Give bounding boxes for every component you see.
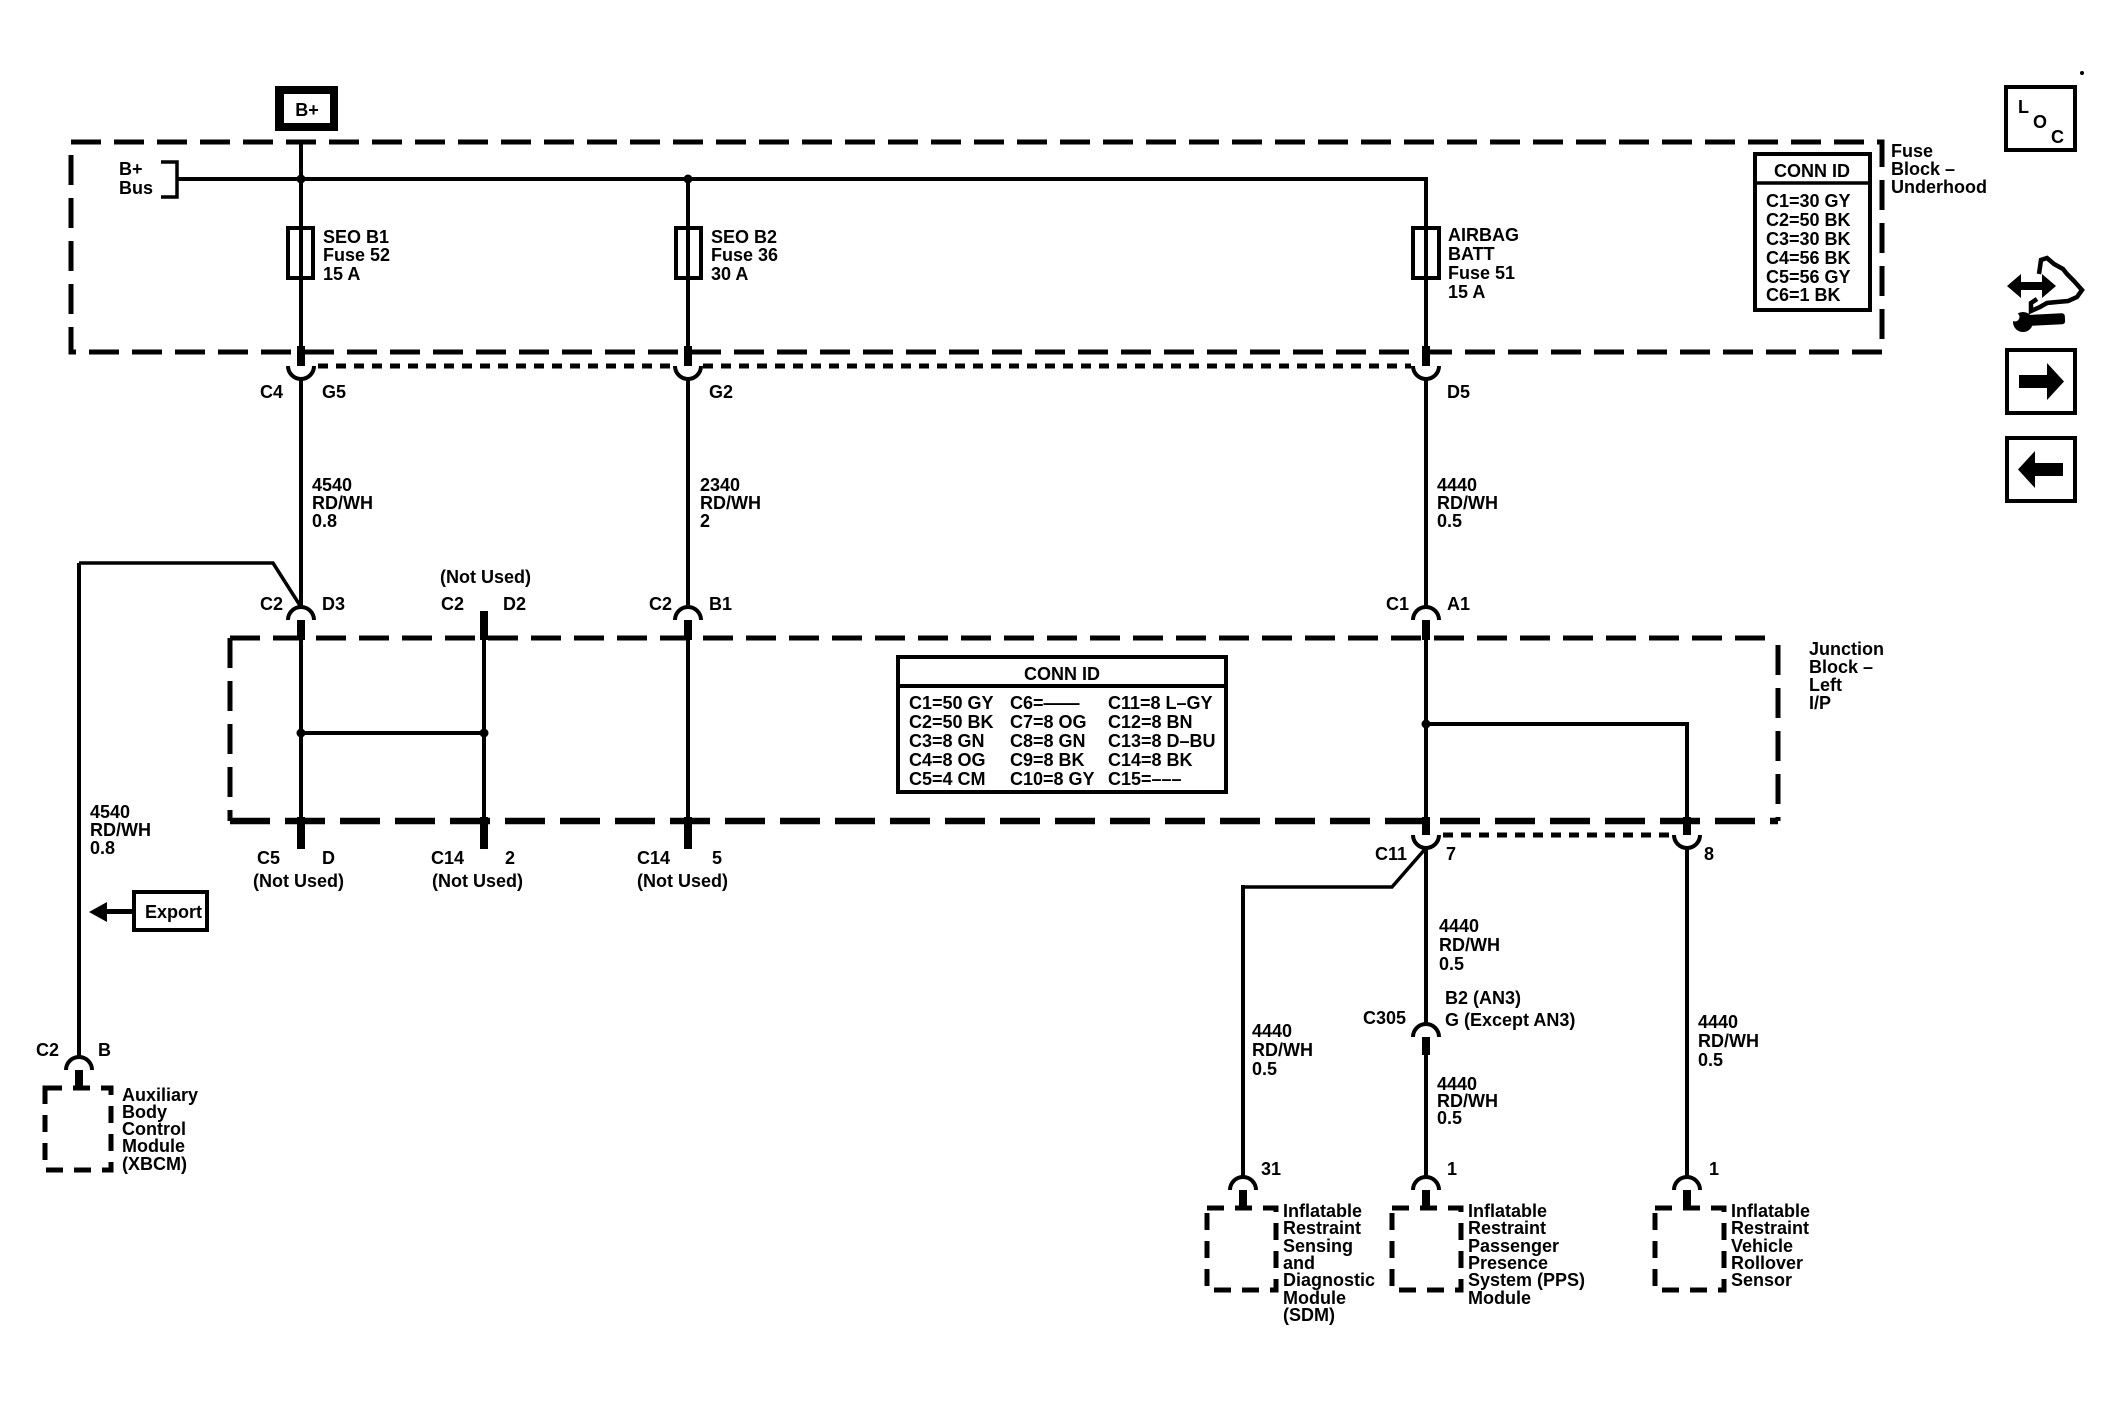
svg-text:7: 7 — [1446, 844, 1456, 864]
B+ power symbol — [275, 86, 338, 131]
svg-text:(Not Used): (Not Used) — [637, 871, 728, 891]
junction dot tie right — [480, 729, 489, 738]
svg-text:Left: Left — [1809, 675, 1842, 695]
wire B+ box to bus — [299, 142, 303, 350]
wire G2 down to B1 — [686, 379, 690, 607]
wire bus corner down to AIRBAG fuse — [1424, 177, 1428, 350]
svg-text:SEO B1: SEO B1 — [323, 227, 389, 247]
wire label 2340 RD/WH 2 — [700, 475, 761, 531]
svg-text:C305: C305 — [1363, 1008, 1406, 1028]
svg-text:4440: 4440 — [1439, 916, 1479, 936]
wire B1 down through junction block — [686, 640, 690, 821]
svg-text:C2: C2 — [441, 594, 464, 614]
wire label 4440 RD/WH 0.5 (SDM) — [1252, 1021, 1313, 1079]
svg-text:RD/WH: RD/WH — [1252, 1040, 1313, 1060]
tie wire between columns — [301, 731, 484, 735]
right arrow box — [2007, 350, 2075, 413]
svg-text:Diagnostic: Diagnostic — [1283, 1270, 1375, 1290]
svg-text:D2: D2 — [503, 594, 526, 614]
svg-text:0.5: 0.5 — [1437, 511, 1462, 531]
svg-text:0.8: 0.8 — [312, 511, 337, 531]
connector C5/D not used — [253, 817, 344, 891]
wire C11 down to C305 — [1424, 848, 1428, 1024]
connector C1/A1 — [1386, 594, 1470, 640]
svg-text:RD/WH: RD/WH — [90, 820, 151, 840]
svg-text:CONN ID: CONN ID — [1774, 161, 1850, 181]
vehicle outline icon — [2031, 258, 2082, 311]
connector C305 — [1363, 988, 1575, 1055]
svg-text:D5: D5 — [1447, 382, 1470, 402]
fuse SEO B1 Fuse 52 — [288, 227, 390, 284]
wire A1 down through junction block — [1424, 640, 1428, 819]
svg-text:C10=8 GY: C10=8 GY — [1010, 769, 1095, 789]
left arrow box — [2007, 438, 2075, 501]
svg-text:0.5: 0.5 — [1252, 1059, 1277, 1079]
svg-text:Restraint: Restraint — [1731, 1218, 1809, 1238]
svg-text:2340: 2340 — [700, 475, 740, 495]
connector G2 — [675, 346, 733, 402]
label Inflatable Restraint Sensing and Diagnostic Module (SDM) — [1283, 1201, 1375, 1325]
svg-text:Fuse 36: Fuse 36 — [711, 245, 778, 265]
connector C2/D2 not used — [440, 567, 531, 640]
svg-text:1: 1 — [1447, 1159, 1457, 1179]
svg-text:SEO B2: SEO B2 — [711, 227, 777, 247]
dotted connector row C11 — [1443, 833, 1672, 838]
svg-text:C2=50 BK: C2=50 BK — [1766, 210, 1851, 230]
svg-text:30 A: 30 A — [711, 264, 748, 284]
svg-text:31: 31 — [1261, 1159, 1281, 1179]
svg-text:C11=8 L–GY: C11=8 L–GY — [1108, 693, 1213, 713]
svg-text:15 A: 15 A — [323, 264, 360, 284]
export arrow — [89, 902, 135, 922]
svg-text:(SDM): (SDM) — [1283, 1305, 1335, 1325]
svg-text:Block –: Block – — [1809, 657, 1873, 677]
svg-text:4440: 4440 — [1437, 475, 1477, 495]
svg-text:C8=8 GN: C8=8 GN — [1010, 731, 1086, 751]
wire D3 down through junction block — [299, 640, 303, 821]
wire label 4440 RD/WH 0.5 (above C305) — [1439, 916, 1500, 974]
label Auxiliary Body Control Module (XBCM) — [122, 1085, 198, 1174]
svg-text:C5: C5 — [257, 848, 280, 868]
wire label 4540 RD/WH 0.8 (export branch) — [90, 802, 151, 858]
wire label 4440 RD/WH 0.5 (below C305) — [1437, 1074, 1498, 1128]
connector C2/D3 — [260, 594, 345, 640]
svg-text:4440: 4440 — [1252, 1021, 1292, 1041]
svg-text:RD/WH: RD/WH — [1439, 935, 1500, 955]
svg-text:Bus: Bus — [119, 178, 153, 198]
svg-text:C4=56 BK: C4=56 BK — [1766, 248, 1851, 268]
fuse block underhood dashed box — [71, 142, 1882, 352]
svg-text:L: L — [2018, 97, 2029, 117]
connector D5 — [1413, 346, 1470, 402]
svg-text:G5: G5 — [322, 382, 346, 402]
svg-text:C11: C11 — [1375, 844, 1407, 864]
svg-text:Underhood: Underhood — [1891, 177, 1987, 197]
junction dot A1 branch — [1422, 720, 1431, 729]
svg-text:C1=50 GY: C1=50 GY — [909, 693, 994, 713]
svg-text:G (Except AN3): G (Except AN3) — [1445, 1010, 1575, 1030]
CONN ID table (junction block) — [898, 657, 1226, 792]
junction dot bus / SEO B1 — [297, 175, 306, 184]
svg-text:C1: C1 — [1386, 594, 1409, 614]
svg-text:C12=8 BN: C12=8 BN — [1108, 712, 1193, 732]
svg-text:Module: Module — [122, 1136, 185, 1156]
svg-text:AIRBAG: AIRBAG — [1448, 225, 1519, 245]
svg-text:0.8: 0.8 — [90, 838, 115, 858]
junction dot tie left — [297, 729, 306, 738]
svg-text:0.5: 0.5 — [1439, 954, 1464, 974]
svg-text:RD/WH: RD/WH — [312, 493, 373, 513]
svg-text:RD/WH: RD/WH — [1437, 493, 1498, 513]
svg-text:C14: C14 — [431, 848, 464, 868]
svg-text:C2=50 BK: C2=50 BK — [909, 712, 994, 732]
svg-text:4440: 4440 — [1698, 1012, 1738, 1032]
svg-text:(Not Used): (Not Used) — [432, 871, 523, 891]
connector C11/7 — [1375, 817, 1456, 864]
svg-text:C6=1 BK: C6=1 BK — [1766, 285, 1841, 305]
svg-text:0.5: 0.5 — [1437, 1108, 1462, 1128]
svg-text:C4: C4 — [260, 382, 283, 402]
svg-text:A1: A1 — [1447, 594, 1470, 614]
svg-text:15 A: 15 A — [1448, 282, 1485, 302]
svg-text:Module: Module — [1468, 1288, 1531, 1308]
fuse SEO B2 Fuse 36 — [676, 227, 778, 284]
wire 8 down to rollover connector — [1685, 848, 1689, 1177]
left vertical wire to XBCM — [77, 563, 81, 1057]
svg-text:C6=——: C6=—— — [1010, 693, 1080, 713]
svg-text:C9=8 BK: C9=8 BK — [1010, 750, 1085, 770]
svg-text:RD/WH: RD/WH — [1698, 1031, 1759, 1051]
svg-text:C7=8 OG: C7=8 OG — [1010, 712, 1087, 732]
junction dot bus / SEO B2 — [684, 175, 693, 184]
svg-text:BATT: BATT — [1448, 244, 1495, 264]
fuse AIRBAG BATT Fuse 51 — [1413, 225, 1519, 302]
svg-text:0.5: 0.5 — [1698, 1050, 1723, 1070]
svg-text:C5=4 CM: C5=4 CM — [909, 769, 986, 789]
svg-text:D: D — [322, 848, 335, 868]
svg-text:5: 5 — [712, 848, 722, 868]
connector 1 (PPS) — [1413, 1159, 1457, 1208]
svg-text:O: O — [2033, 112, 2047, 132]
svg-text:RD/WH: RD/WH — [700, 493, 761, 513]
svg-text:4540: 4540 — [312, 475, 352, 495]
svg-text:C5=56 GY: C5=56 GY — [1766, 267, 1851, 287]
wrench icon — [2008, 312, 2065, 332]
wire down to SDM connector — [1241, 885, 1245, 1177]
svg-text:C4=8 OG: C4=8 OG — [909, 750, 986, 770]
LOC box — [2006, 87, 2075, 150]
connector 8 — [1674, 817, 1714, 864]
vehicle double-arrow icon — [2007, 274, 2056, 298]
svg-text:D3: D3 — [322, 594, 345, 614]
svg-text:8: 8 — [1704, 844, 1714, 864]
dotted connector row below fuse block — [318, 364, 1411, 369]
wire bus to G2 through SEO B2 — [686, 179, 690, 350]
B+ Bus label — [119, 159, 153, 198]
svg-text:(Not Used): (Not Used) — [440, 567, 531, 587]
wire C305 down to PPS connector — [1424, 1055, 1428, 1177]
svg-text:C3=8 GN: C3=8 GN — [909, 731, 985, 751]
wire label 4440 RD/WH 0.5 — [1437, 475, 1498, 531]
svg-text:(XBCM): (XBCM) — [122, 1154, 187, 1174]
svg-text:B2 (AN3): B2 (AN3) — [1445, 988, 1521, 1008]
auxiliary body control module XBCM dashed box — [45, 1088, 111, 1170]
CONN ID table (fuse block underhood) — [1755, 154, 1870, 310]
svg-text:B: B — [98, 1040, 111, 1060]
bus wire — [177, 177, 1426, 181]
tiny dot mark — [2080, 71, 2084, 75]
connector C2/B (XBCM) — [36, 1040, 111, 1089]
wire D2 down through junction block — [482, 640, 486, 821]
svg-text:Sensor: Sensor — [1731, 1270, 1792, 1290]
svg-text:C2: C2 — [260, 594, 283, 614]
wire G5 down to C2/D3 — [299, 379, 303, 607]
svg-text:2: 2 — [505, 848, 515, 868]
connector C14/2 not used — [431, 817, 523, 891]
svg-text:2: 2 — [700, 511, 710, 531]
label Fuse Block - Underhood — [1891, 141, 1987, 197]
svg-text:C14: C14 — [637, 848, 670, 868]
svg-text:C1=30 GY: C1=30 GY — [1766, 191, 1851, 211]
B+ Bus bracket — [161, 162, 177, 197]
label Inflatable Restraint Passenger Presence System (PPS) Module — [1468, 1201, 1585, 1308]
svg-text:Junction: Junction — [1809, 639, 1884, 659]
branch wire to connector 8 — [1426, 724, 1687, 819]
branch wire to XBCM: horizontal and diagonal into C2/D3 — [79, 563, 301, 607]
svg-text:C2: C2 — [36, 1040, 59, 1060]
SDM dashed box — [1207, 1208, 1276, 1290]
svg-text:B+: B+ — [119, 159, 143, 179]
svg-text:Fuse 51: Fuse 51 — [1448, 263, 1515, 283]
connector 1 (rollover) — [1674, 1159, 1719, 1208]
connector C4/G5 — [260, 346, 346, 402]
svg-text:G2: G2 — [709, 382, 733, 402]
svg-text:C14=8 BK: C14=8 BK — [1108, 750, 1193, 770]
label Junction Block - Left I/P — [1809, 639, 1884, 713]
connector C14/5 not used — [637, 817, 728, 891]
svg-text:C2: C2 — [649, 594, 672, 614]
PPS dashed box — [1392, 1208, 1461, 1290]
wire label 4540 RD/WH 0.8 — [312, 475, 373, 531]
svg-text:Restraint: Restraint — [1468, 1218, 1546, 1238]
connector 31 (SDM) — [1230, 1159, 1281, 1208]
svg-text:B+: B+ — [295, 100, 319, 120]
svg-text:Restraint: Restraint — [1283, 1218, 1361, 1238]
svg-text:B1: B1 — [709, 594, 732, 614]
svg-text:Block –: Block – — [1891, 159, 1955, 179]
wire label 4440 RD/WH 0.5 (rollover) — [1698, 1012, 1759, 1070]
connector C2/B1 — [649, 594, 732, 640]
label Inflatable Restraint Vehicle Rollover Sensor — [1731, 1201, 1810, 1290]
svg-text:C13=8 D–BU: C13=8 D–BU — [1108, 731, 1216, 751]
export box — [134, 892, 207, 930]
junction block left I/P dashed box — [230, 638, 1778, 821]
svg-text:Fuse 52: Fuse 52 — [323, 245, 390, 265]
svg-text:(Not Used): (Not Used) — [253, 871, 344, 891]
svg-text:4540: 4540 — [90, 802, 130, 822]
svg-text:System (PPS): System (PPS) — [1468, 1270, 1585, 1290]
svg-text:CONN ID: CONN ID — [1024, 664, 1100, 684]
svg-text:Fuse: Fuse — [1891, 141, 1933, 161]
wire D5 down to C1/A1 — [1424, 379, 1428, 607]
svg-text:I/P: I/P — [1809, 693, 1831, 713]
branch wire from C11 to SDM column — [1243, 848, 1426, 887]
svg-text:C3=30 BK: C3=30 BK — [1766, 229, 1851, 249]
svg-text:1: 1 — [1709, 1159, 1719, 1179]
rollover sensor dashed box — [1655, 1208, 1724, 1290]
svg-text:Export: Export — [145, 902, 202, 922]
svg-text:C15=–––: C15=––– — [1108, 769, 1182, 789]
svg-text:C: C — [2051, 127, 2064, 147]
